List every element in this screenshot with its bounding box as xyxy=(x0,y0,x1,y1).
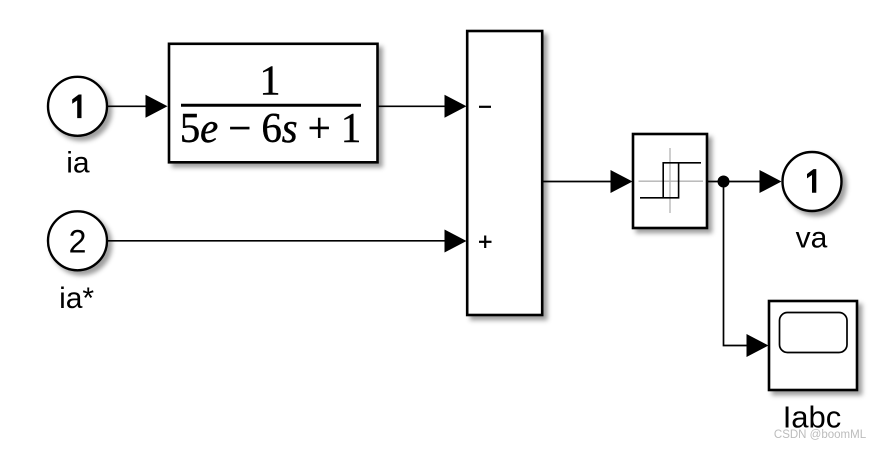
svg-text:ia*: ia* xyxy=(59,282,94,315)
svg-text:2: 2 xyxy=(69,224,87,260)
svg-text:ia: ia xyxy=(66,146,90,179)
svg-text:va: va xyxy=(796,222,828,255)
svg-text:1: 1 xyxy=(260,58,281,104)
svg-text:CSDN @boomML: CSDN @boomML xyxy=(774,429,867,441)
svg-text:5e − 6s + 1: 5e − 6s + 1 xyxy=(180,104,361,151)
